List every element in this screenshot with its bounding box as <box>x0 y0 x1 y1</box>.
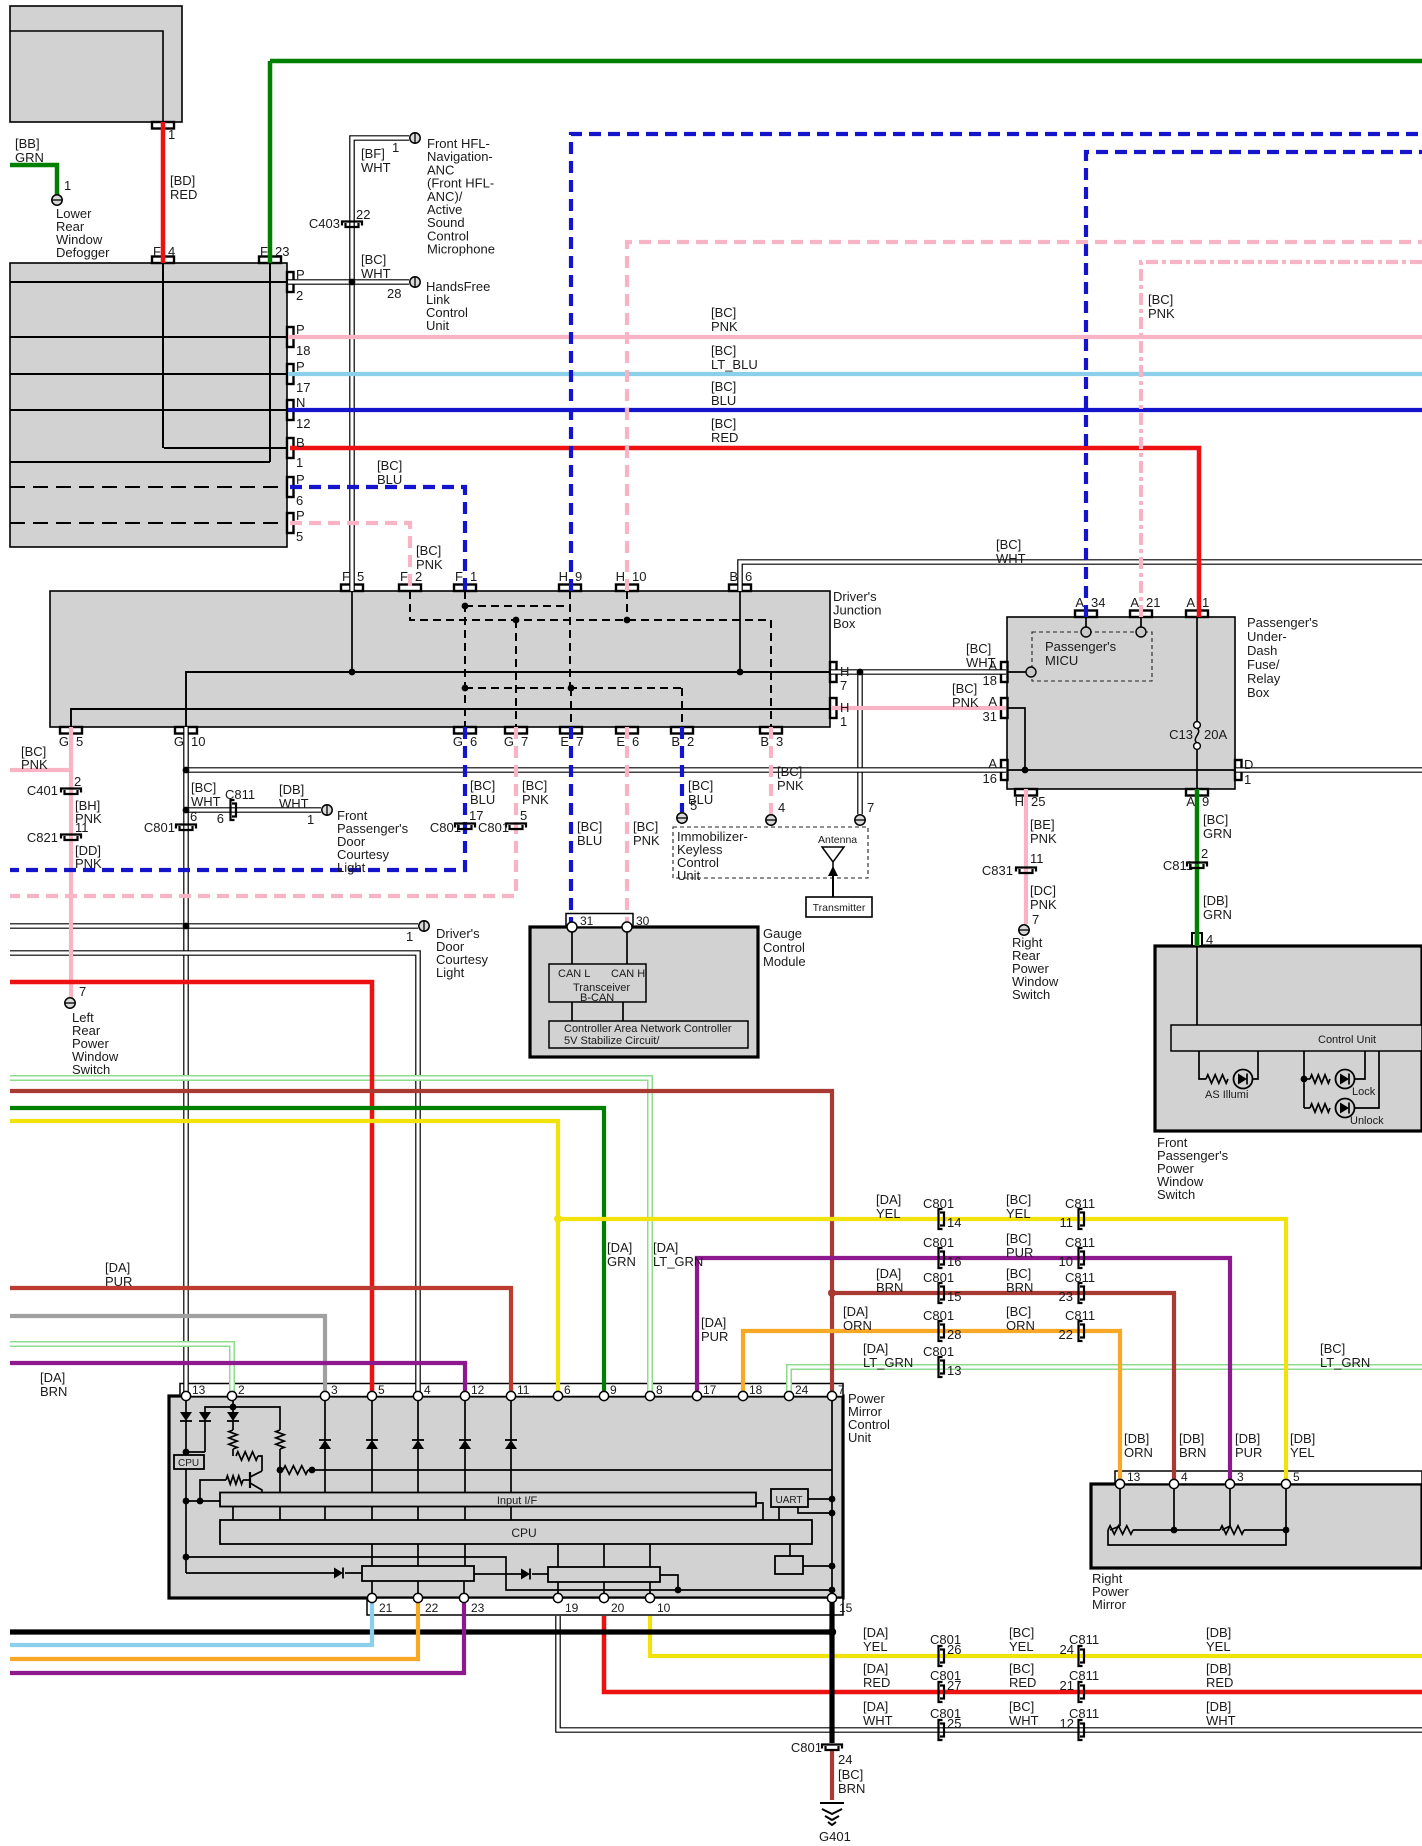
svg-text:PNK: PNK <box>711 319 738 334</box>
svg-text:RED: RED <box>711 430 738 445</box>
svg-text:1: 1 <box>840 714 847 729</box>
svg-text:G: G <box>59 734 69 749</box>
svg-text:Light: Light <box>436 965 465 980</box>
svg-text:[DB]: [DB] <box>1179 1431 1204 1446</box>
svg-text:C811: C811 <box>1065 1196 1095 1211</box>
svg-text:A: A <box>1186 794 1195 809</box>
svg-text:6: 6 <box>632 734 639 749</box>
svg-text:12: 12 <box>1060 1716 1074 1731</box>
svg-text:LT_GRN: LT_GRN <box>1320 1355 1370 1370</box>
svg-text:C811: C811 <box>1163 858 1193 873</box>
svg-text:[BC]: [BC] <box>711 379 736 394</box>
svg-text:[DB]: [DB] <box>1235 1431 1260 1446</box>
svg-text:7: 7 <box>838 1383 845 1397</box>
svg-text:6: 6 <box>470 734 477 749</box>
svg-text:4: 4 <box>424 1383 431 1397</box>
svg-text:[BC]: [BC] <box>1006 1266 1031 1281</box>
svg-text:28: 28 <box>387 286 401 301</box>
svg-text:H: H <box>1015 794 1024 809</box>
svg-text:GRN: GRN <box>607 1254 636 1269</box>
svg-text:H: H <box>840 664 849 679</box>
svg-text:[DA]: [DA] <box>876 1192 901 1207</box>
svg-text:[BC]: [BC] <box>966 641 991 656</box>
svg-text:H: H <box>616 569 625 584</box>
svg-text:18: 18 <box>983 673 997 688</box>
svg-text:24: 24 <box>838 1752 852 1767</box>
svg-text:PNK: PNK <box>1030 831 1057 846</box>
svg-text:PUR: PUR <box>701 1329 728 1344</box>
svg-text:5V Stabilize Circuit/: 5V Stabilize Circuit/ <box>564 1035 660 1047</box>
svg-text:Mirror: Mirror <box>1092 1597 1127 1612</box>
svg-text:[DA]: [DA] <box>40 1370 65 1385</box>
svg-text:G: G <box>453 734 463 749</box>
svg-text:6: 6 <box>296 493 303 508</box>
svg-text:2: 2 <box>296 288 303 303</box>
svg-text:[BC]: [BC] <box>996 537 1021 552</box>
svg-text:Switch: Switch <box>72 1062 110 1077</box>
svg-text:C801: C801 <box>430 820 461 835</box>
svg-text:[BC]: [BC] <box>633 819 658 834</box>
svg-text:Lock: Lock <box>1352 1086 1376 1098</box>
svg-text:21: 21 <box>1060 1678 1074 1693</box>
svg-text:WHT: WHT <box>863 1713 893 1728</box>
svg-text:[DB]: [DB] <box>279 782 304 797</box>
svg-text:CPU: CPU <box>511 1526 536 1540</box>
svg-text:25: 25 <box>1031 794 1045 809</box>
svg-text:C811: C811 <box>1065 1235 1095 1250</box>
svg-text:7: 7 <box>1032 912 1039 927</box>
svg-text:[DB]: [DB] <box>1206 1625 1231 1640</box>
svg-text:3: 3 <box>1237 1470 1244 1484</box>
svg-text:[DA]: [DA] <box>607 1240 632 1255</box>
svg-text:5: 5 <box>520 808 527 823</box>
svg-text:[BC]: [BC] <box>838 1767 863 1782</box>
svg-text:F: F <box>260 244 268 259</box>
svg-text:UART: UART <box>775 1495 802 1506</box>
svg-text:[DC]: [DC] <box>1030 883 1056 898</box>
svg-text:1: 1 <box>470 569 477 584</box>
svg-text:WHT: WHT <box>361 160 391 175</box>
svg-text:D: D <box>1244 757 1253 772</box>
svg-text:GRN: GRN <box>15 150 44 165</box>
svg-text:A: A <box>988 694 997 709</box>
svg-text:9: 9 <box>1202 794 1209 809</box>
svg-text:5: 5 <box>76 734 83 749</box>
svg-text:Fuse/: Fuse/ <box>1247 657 1280 672</box>
svg-text:1: 1 <box>1202 595 1209 610</box>
svg-text:F: F <box>455 569 463 584</box>
svg-text:[BB]: [BB] <box>15 136 40 151</box>
svg-text:3: 3 <box>776 734 783 749</box>
svg-text:CAN H: CAN H <box>611 968 645 980</box>
svg-text:[BF]: [BF] <box>361 146 385 161</box>
svg-text:11: 11 <box>517 1383 530 1397</box>
svg-text:4: 4 <box>778 800 785 815</box>
svg-text:C811: C811 <box>1065 1308 1095 1323</box>
svg-text:[BC]: [BC] <box>1009 1625 1034 1640</box>
svg-text:P: P <box>296 267 305 282</box>
svg-text:3: 3 <box>331 1383 338 1397</box>
svg-text:C801: C801 <box>923 1344 954 1359</box>
svg-text:[DA]: [DA] <box>863 1661 888 1676</box>
svg-text:CPU: CPU <box>178 1458 199 1469</box>
svg-text:1: 1 <box>406 929 413 944</box>
svg-text:11: 11 <box>75 820 89 835</box>
svg-text:P: P <box>296 508 305 523</box>
svg-text:RED: RED <box>863 1675 890 1690</box>
svg-text:13: 13 <box>192 1383 206 1397</box>
svg-text:C403: C403 <box>309 216 340 231</box>
svg-text:17: 17 <box>703 1383 717 1397</box>
svg-text:C811: C811 <box>1065 1270 1095 1285</box>
svg-text:4: 4 <box>1206 932 1213 947</box>
svg-text:YEL: YEL <box>863 1639 888 1654</box>
svg-text:34: 34 <box>1091 595 1105 610</box>
svg-text:9: 9 <box>575 569 582 584</box>
svg-text:15: 15 <box>947 1289 961 1304</box>
svg-text:7: 7 <box>867 800 874 815</box>
svg-text:[BC]: [BC] <box>191 780 216 795</box>
svg-text:B: B <box>729 569 738 584</box>
svg-text:YEL: YEL <box>1290 1445 1315 1460</box>
svg-text:[DA]: [DA] <box>653 1240 678 1255</box>
svg-text:[DA]: [DA] <box>863 1699 888 1714</box>
svg-text:22: 22 <box>425 1601 439 1615</box>
svg-text:Unit: Unit <box>426 318 450 333</box>
svg-text:F: F <box>153 244 161 259</box>
svg-text:24: 24 <box>795 1383 809 1397</box>
svg-text:10: 10 <box>1059 1254 1073 1269</box>
svg-text:15: 15 <box>839 1601 853 1615</box>
svg-text:[DA]: [DA] <box>105 1260 130 1275</box>
svg-text:Dash: Dash <box>1247 643 1277 658</box>
svg-text:E: E <box>560 734 569 749</box>
svg-text:1: 1 <box>64 178 71 193</box>
svg-text:[BC]: [BC] <box>711 416 736 431</box>
svg-text:5: 5 <box>378 1383 385 1397</box>
svg-text:C401: C401 <box>27 783 58 798</box>
svg-text:2: 2 <box>1201 846 1208 861</box>
svg-text:[BC]: [BC] <box>1009 1699 1034 1714</box>
svg-text:[DB]: [DB] <box>1206 1661 1231 1676</box>
svg-text:[BC]: [BC] <box>1148 292 1173 307</box>
svg-text:[DB]: [DB] <box>1206 1699 1231 1714</box>
svg-text:WHT: WHT <box>966 655 996 670</box>
svg-text:[DA]: [DA] <box>863 1625 888 1640</box>
svg-text:[BC]: [BC] <box>522 778 547 793</box>
svg-text:PNK: PNK <box>21 757 48 772</box>
svg-text:Switch: Switch <box>1012 987 1050 1002</box>
svg-text:2: 2 <box>74 774 81 789</box>
svg-text:RED: RED <box>1009 1675 1036 1690</box>
svg-text:19: 19 <box>565 1601 579 1615</box>
svg-text:[BC]: [BC] <box>377 458 402 473</box>
svg-text:Unlock: Unlock <box>1350 1115 1384 1127</box>
svg-text:23: 23 <box>1059 1289 1073 1304</box>
svg-text:7: 7 <box>521 734 528 749</box>
svg-text:[BC]: [BC] <box>1006 1231 1031 1246</box>
svg-text:G: G <box>504 734 514 749</box>
svg-text:[DA]: [DA] <box>876 1266 901 1281</box>
svg-text:Passenger's: Passenger's <box>1247 615 1319 630</box>
svg-text:YEL: YEL <box>1206 1639 1231 1654</box>
svg-text:30: 30 <box>636 914 650 928</box>
svg-text:10: 10 <box>657 1601 671 1615</box>
svg-text:Switch: Switch <box>1157 1187 1195 1202</box>
svg-text:[BE]: [BE] <box>1030 817 1055 832</box>
svg-text:PNK: PNK <box>75 856 102 871</box>
svg-text:PUR: PUR <box>105 1274 132 1289</box>
svg-text:MICU: MICU <box>1045 653 1078 668</box>
svg-text:1: 1 <box>392 140 399 155</box>
svg-text:RED: RED <box>1206 1675 1233 1690</box>
svg-text:31: 31 <box>580 914 594 928</box>
svg-text:GRN: GRN <box>1203 907 1232 922</box>
svg-text:B-CAN: B-CAN <box>580 992 614 1004</box>
svg-text:P: P <box>296 322 305 337</box>
svg-text:ORN: ORN <box>843 1318 872 1333</box>
svg-text:20: 20 <box>611 1601 625 1615</box>
svg-text:22: 22 <box>1059 1327 1073 1342</box>
svg-text:1: 1 <box>296 455 303 470</box>
svg-text:18: 18 <box>296 343 310 358</box>
svg-text:5: 5 <box>1293 1470 1300 1484</box>
svg-text:PNK: PNK <box>633 833 660 848</box>
svg-text:BRN: BRN <box>1006 1280 1033 1295</box>
svg-text:P: P <box>296 472 305 487</box>
svg-text:23: 23 <box>471 1601 485 1615</box>
svg-text:Box: Box <box>833 616 856 631</box>
svg-text:11: 11 <box>1030 851 1044 866</box>
svg-text:Box: Box <box>1247 685 1270 700</box>
svg-text:28: 28 <box>947 1327 961 1342</box>
svg-text:[DA]: [DA] <box>701 1315 726 1330</box>
svg-text:BRN: BRN <box>876 1280 903 1295</box>
svg-text:C13: C13 <box>1169 727 1193 742</box>
svg-text:12: 12 <box>471 1383 485 1397</box>
svg-text:[DB]: [DB] <box>1203 893 1228 908</box>
svg-text:2: 2 <box>238 1383 245 1397</box>
svg-text:[DA]: [DA] <box>843 1304 868 1319</box>
svg-text:11: 11 <box>1060 1215 1074 1230</box>
svg-text:Control Unit: Control Unit <box>1318 1034 1376 1046</box>
svg-text:C831: C831 <box>982 863 1013 878</box>
svg-text:16: 16 <box>947 1254 961 1269</box>
svg-text:C801: C801 <box>923 1196 954 1211</box>
svg-text:27: 27 <box>947 1678 961 1693</box>
svg-text:[BC]: [BC] <box>470 778 495 793</box>
svg-text:Transmitter: Transmitter <box>813 902 866 914</box>
svg-text:A: A <box>988 756 997 771</box>
svg-text:BRN: BRN <box>40 1384 67 1399</box>
svg-text:BLU: BLU <box>711 393 736 408</box>
svg-text:WHT: WHT <box>279 796 309 811</box>
svg-text:PNK: PNK <box>1148 306 1175 321</box>
svg-text:10: 10 <box>191 734 205 749</box>
svg-text:1: 1 <box>168 127 175 142</box>
svg-text:[BC]: [BC] <box>577 819 602 834</box>
svg-text:10: 10 <box>632 569 646 584</box>
svg-text:[BC]: [BC] <box>1006 1304 1031 1319</box>
svg-text:7: 7 <box>576 734 583 749</box>
svg-text:G: G <box>174 734 184 749</box>
svg-text:Input I/F: Input I/F <box>497 1495 538 1507</box>
svg-text:Unit: Unit <box>848 1430 872 1445</box>
svg-text:Gauge: Gauge <box>763 926 802 941</box>
svg-text:C801: C801 <box>478 820 509 835</box>
svg-text:[DA]: [DA] <box>863 1341 888 1356</box>
svg-text:RED: RED <box>170 187 197 202</box>
svg-text:B: B <box>671 734 680 749</box>
svg-text:13: 13 <box>1127 1470 1141 1484</box>
svg-text:PNK: PNK <box>777 778 804 793</box>
svg-text:2: 2 <box>415 569 422 584</box>
svg-text:7: 7 <box>840 678 847 693</box>
svg-text:PNK: PNK <box>522 792 549 807</box>
svg-text:Light: Light <box>337 860 366 875</box>
svg-text:C811: C811 <box>225 787 255 802</box>
svg-text:PNK: PNK <box>952 695 979 710</box>
svg-text:18: 18 <box>749 1383 763 1397</box>
svg-text:8: 8 <box>656 1383 663 1397</box>
svg-text:1: 1 <box>1244 772 1251 787</box>
svg-text:Passenger's: Passenger's <box>1045 639 1117 654</box>
svg-text:4: 4 <box>168 244 175 259</box>
svg-text:5: 5 <box>296 529 303 544</box>
svg-text:9: 9 <box>610 1383 617 1397</box>
svg-text:WHT: WHT <box>361 266 391 281</box>
svg-text:BLU: BLU <box>577 833 602 848</box>
svg-text:G401: G401 <box>819 1829 851 1844</box>
svg-text:LT_GRN: LT_GRN <box>653 1254 703 1269</box>
svg-text:YEL: YEL <box>1006 1206 1031 1221</box>
svg-text:[DB]: [DB] <box>1124 1431 1149 1446</box>
svg-text:PNK: PNK <box>1030 897 1057 912</box>
svg-text:B: B <box>760 734 769 749</box>
svg-text:25: 25 <box>947 1716 961 1731</box>
svg-text:13: 13 <box>947 1363 961 1378</box>
svg-text:31: 31 <box>983 709 997 724</box>
svg-text:E: E <box>616 734 625 749</box>
svg-text:1: 1 <box>307 812 314 827</box>
svg-text:[BC]: [BC] <box>952 681 977 696</box>
svg-text:C821: C821 <box>27 830 58 845</box>
svg-text:12: 12 <box>296 416 310 431</box>
svg-text:[BC]: [BC] <box>1320 1341 1345 1356</box>
svg-text:[BC]: [BC] <box>1009 1661 1034 1676</box>
svg-text:[BC]: [BC] <box>416 543 441 558</box>
svg-text:[DB]: [DB] <box>1290 1431 1315 1446</box>
svg-text:Controller Area Network Contro: Controller Area Network Controller <box>564 1023 732 1035</box>
svg-text:[BC]: [BC] <box>688 778 713 793</box>
svg-text:BLU: BLU <box>377 472 402 487</box>
svg-text:5: 5 <box>357 569 364 584</box>
svg-text:[BC]: [BC] <box>711 305 736 320</box>
svg-text:16: 16 <box>983 771 997 786</box>
svg-text:[BC]: [BC] <box>711 343 736 358</box>
svg-text:ORN: ORN <box>1124 1445 1153 1460</box>
svg-text:CAN L: CAN L <box>558 968 590 980</box>
svg-text:17: 17 <box>296 380 310 395</box>
svg-text:Antenna: Antenna <box>818 834 857 846</box>
svg-text:Module: Module <box>763 954 806 969</box>
svg-text:F: F <box>400 569 408 584</box>
svg-text:Under-: Under- <box>1247 629 1287 644</box>
svg-text:LT_BLU: LT_BLU <box>711 357 758 372</box>
svg-text:2: 2 <box>687 734 694 749</box>
svg-text:PUR: PUR <box>1006 1245 1033 1260</box>
svg-text:A: A <box>1186 595 1195 610</box>
svg-text:[BC]: [BC] <box>1006 1192 1031 1207</box>
svg-text:C801: C801 <box>923 1308 954 1323</box>
svg-text:6: 6 <box>745 569 752 584</box>
svg-text:21: 21 <box>1146 595 1160 610</box>
svg-text:[BC]: [BC] <box>361 252 386 267</box>
svg-text:WHT: WHT <box>1009 1713 1039 1728</box>
svg-text:BRN: BRN <box>1179 1445 1206 1460</box>
svg-text:F: F <box>342 569 350 584</box>
svg-text:BRN: BRN <box>838 1781 865 1796</box>
svg-text:P: P <box>296 359 305 374</box>
svg-text:26: 26 <box>947 1642 961 1657</box>
svg-text:AS Illumi: AS Illumi <box>1205 1089 1248 1101</box>
svg-text:Relay: Relay <box>1247 671 1281 686</box>
svg-text:Defogger: Defogger <box>56 245 110 260</box>
svg-text:6: 6 <box>217 811 224 826</box>
svg-text:WHT: WHT <box>996 551 1026 566</box>
svg-text:WHT: WHT <box>191 794 221 809</box>
svg-text:WHT: WHT <box>1206 1713 1236 1728</box>
svg-text:PUR: PUR <box>1235 1445 1262 1460</box>
svg-text:A: A <box>1075 595 1084 610</box>
svg-text:Control: Control <box>763 940 805 955</box>
svg-text:N: N <box>296 395 305 410</box>
svg-text:[BC]: [BC] <box>1203 812 1228 827</box>
svg-text:C801: C801 <box>791 1740 822 1755</box>
svg-text:24: 24 <box>1060 1642 1074 1657</box>
svg-text:ORN: ORN <box>1006 1318 1035 1333</box>
svg-text:B: B <box>296 435 305 450</box>
svg-text:H: H <box>559 569 568 584</box>
svg-text:LT_GRN: LT_GRN <box>863 1355 913 1370</box>
svg-text:[BC]: [BC] <box>777 764 802 779</box>
svg-text:6: 6 <box>564 1383 571 1397</box>
svg-text:A: A <box>1130 595 1139 610</box>
svg-text:20A: 20A <box>1204 727 1227 742</box>
svg-text:Microphone: Microphone <box>427 242 495 257</box>
svg-text:5: 5 <box>690 798 697 813</box>
svg-text:GRN: GRN <box>1203 826 1232 841</box>
svg-text:C801: C801 <box>923 1235 954 1250</box>
svg-text:22: 22 <box>356 207 370 222</box>
svg-text:YEL: YEL <box>876 1206 901 1221</box>
svg-text:C801: C801 <box>923 1270 954 1285</box>
svg-text:21: 21 <box>379 1601 393 1615</box>
svg-text:H: H <box>840 700 849 715</box>
svg-text:BLU: BLU <box>470 792 495 807</box>
svg-text:23: 23 <box>275 244 289 259</box>
svg-text:6: 6 <box>190 809 197 824</box>
svg-text:Unit: Unit <box>677 868 701 883</box>
svg-text:[BD]: [BD] <box>170 173 195 188</box>
svg-text:14: 14 <box>947 1215 961 1230</box>
svg-text:C801: C801 <box>144 820 175 835</box>
svg-text:7: 7 <box>79 984 86 999</box>
svg-text:YEL: YEL <box>1009 1639 1034 1654</box>
svg-text:4: 4 <box>1181 1470 1188 1484</box>
